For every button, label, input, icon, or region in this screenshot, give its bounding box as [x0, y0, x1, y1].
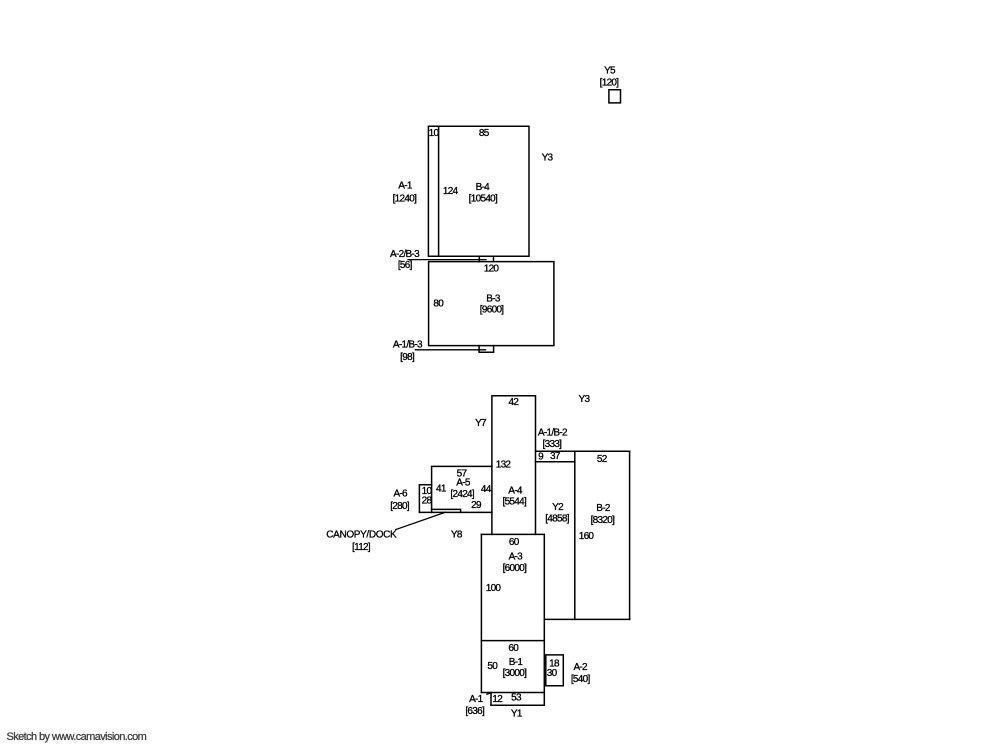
svg-text:B-1: B-1	[509, 657, 524, 668]
svg-text:[280]: [280]	[390, 501, 410, 512]
svg-text:44: 44	[481, 484, 492, 495]
svg-text:52: 52	[597, 454, 608, 465]
strip A-1/B-2 bottom wall	[536, 461, 575, 463]
svg-text:Sketch by www.camavision.com: Sketch by www.camavision.com	[7, 731, 147, 743]
svg-text:[3000]: [3000]	[503, 668, 528, 679]
wall between Y2 and B-2	[574, 451, 576, 619]
building B-4 outline	[428, 126, 529, 256]
svg-text:CANOPY/DOCK: CANOPY/DOCK	[326, 530, 397, 541]
svg-text:B-3: B-3	[486, 293, 501, 304]
svg-text:A-3: A-3	[509, 551, 524, 562]
building B-2 right wall	[629, 451, 631, 619]
svg-text:124: 124	[443, 186, 459, 197]
bottom wall of Y2 and B-2	[544, 618, 629, 620]
svg-text:A-6: A-6	[393, 489, 408, 500]
svg-text:[8320]: [8320]	[591, 515, 616, 526]
svg-text:A-2/B-3: A-2/B-3	[390, 249, 420, 260]
svg-text:A-1: A-1	[469, 694, 484, 705]
svg-text:[333]: [333]	[543, 439, 563, 450]
svg-text:Y1: Y1	[511, 708, 523, 719]
svg-text:28: 28	[422, 495, 433, 506]
svg-text:B-4: B-4	[476, 182, 491, 193]
svg-text:Y3: Y3	[578, 394, 590, 405]
connector A-2/B-3 left wall	[478, 256, 480, 261]
svg-text:A-1/B-3: A-1/B-3	[393, 340, 423, 351]
yard item Y5 box	[609, 90, 621, 103]
svg-text:[112]: [112]	[352, 542, 371, 553]
section A-1 divider wall inside B-4	[438, 126, 440, 256]
svg-text:[1240]: [1240]	[393, 194, 418, 205]
leader line A-2/B-3	[408, 259, 486, 261]
svg-text:[2424]: [2424]	[450, 489, 475, 500]
svg-text:B-2: B-2	[596, 503, 611, 514]
svg-text:12: 12	[492, 694, 503, 705]
svg-text:[9600]: [9600]	[480, 304, 505, 315]
porch A-1/Y1 strip bottom wall	[491, 704, 544, 706]
svg-text:60: 60	[509, 537, 520, 548]
svg-text:120: 120	[484, 263, 500, 274]
svg-text:A-1: A-1	[398, 181, 413, 192]
svg-text:A-1/B-2: A-1/B-2	[538, 428, 568, 439]
leader line canopy/dock	[396, 512, 446, 529]
svg-text:[636]: [636]	[465, 706, 485, 717]
svg-text:[98]: [98]	[400, 352, 415, 363]
svg-text:42: 42	[509, 397, 520, 408]
svg-text:[120]: [120]	[600, 77, 620, 88]
connector A-2/B-3 right wall	[493, 256, 495, 261]
building A-4 outline	[492, 396, 536, 535]
building A-3 top wall	[481, 533, 544, 535]
svg-text:85: 85	[479, 128, 490, 139]
wall between A-3 and B-1	[481, 640, 544, 642]
svg-text:A-2: A-2	[573, 662, 588, 673]
svg-text:Y2: Y2	[552, 502, 564, 513]
svg-text:29: 29	[471, 500, 482, 511]
building A-2 outline	[546, 655, 564, 686]
svg-text:60: 60	[508, 643, 519, 654]
svg-text:Y5: Y5	[604, 65, 616, 76]
svg-text:A-4: A-4	[508, 485, 523, 496]
svg-text:[4858]: [4858]	[545, 514, 570, 525]
strip A-1/B-2 top wall and B-2 top wall	[536, 450, 630, 452]
svg-text:A-5: A-5	[456, 477, 471, 488]
svg-text:37: 37	[550, 451, 561, 462]
building A-5 outline	[419, 466, 492, 512]
building A-6 outline	[419, 485, 431, 513]
svg-text:9: 9	[538, 451, 544, 462]
svg-text:Y3: Y3	[542, 152, 554, 163]
svg-text:[10540]: [10540]	[469, 193, 498, 204]
svg-text:132: 132	[496, 460, 512, 471]
svg-text:41: 41	[436, 483, 447, 494]
svg-text:10: 10	[429, 128, 440, 139]
porch A-1/Y1 strip left wall	[490, 693, 492, 706]
building A-3/B-1 right wall	[543, 534, 545, 705]
svg-text:30: 30	[547, 668, 558, 679]
svg-text:160: 160	[579, 531, 595, 542]
svg-text:50: 50	[487, 661, 498, 672]
building B-1 bottom wall	[481, 692, 544, 694]
svg-text:[540]: [540]	[571, 674, 591, 685]
building A-3/B-1 left wall	[480, 534, 482, 692]
svg-text:53: 53	[511, 692, 522, 703]
svg-text:[56]: [56]	[398, 260, 413, 271]
leader tick A-1	[487, 693, 491, 694]
leader line A-1/B-3	[415, 349, 485, 351]
svg-text:[6000]: [6000]	[503, 563, 528, 574]
connector A-1/B-3 box	[479, 346, 494, 353]
svg-text:80: 80	[433, 298, 444, 309]
svg-text:Y7: Y7	[475, 418, 487, 429]
building B-3 outline	[429, 262, 554, 346]
svg-text:Y8: Y8	[451, 530, 463, 541]
svg-text:[5544]: [5544]	[502, 497, 527, 508]
svg-text:100: 100	[486, 583, 502, 594]
canopy/dock box	[432, 509, 461, 512]
